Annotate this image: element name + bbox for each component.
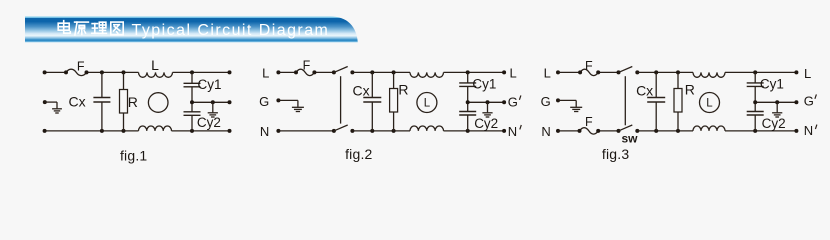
- fig3 rail junction dots: [654, 70, 798, 132]
- svg-text:F: F: [303, 59, 311, 73]
- inductor top winding fig3: [693, 72, 725, 77]
- label G terminal fig3: [541, 94, 551, 109]
- label R fig3: [685, 82, 695, 98]
- inductor top winding fig2: [410, 72, 444, 77]
- svg-text:Cy1: Cy1: [198, 77, 222, 92]
- choke core circle fig1: [148, 93, 168, 113]
- inductor bottom winding fig2: [410, 126, 444, 131]
- label Cx fig2: [352, 82, 369, 98]
- capacitor Cy1 fig3: [747, 72, 764, 102]
- label L terminal fig2: [262, 66, 269, 81]
- svg-text:Cx: Cx: [352, 82, 369, 98]
- svg-text:Cy2: Cy2: [197, 115, 221, 130]
- label Cy1 fig2: [472, 77, 496, 92]
- fig2 top rail wire segments: [352, 71, 504, 73]
- label R fig1: [128, 94, 138, 110]
- svg-text:Cy1: Cy1: [760, 77, 784, 92]
- label F fig2: [303, 59, 311, 73]
- inductor fig1 bottom winding: [139, 126, 172, 131]
- svg-text:L: L: [424, 98, 431, 110]
- svg-text:L: L: [804, 66, 811, 81]
- svg-text:L: L: [706, 98, 713, 110]
- svg-text:Cy2: Cy2: [474, 116, 498, 131]
- capacitor Cx fig1: [93, 72, 110, 130]
- capacitor Cy2 fig1: [184, 102, 201, 131]
- fig1 top rail node dots: [43, 70, 232, 74]
- svg-text:fig.3: fig.3: [602, 146, 629, 162]
- capacitor Cy2 fig2: [459, 102, 476, 131]
- label Cx fig3: [636, 82, 653, 98]
- label N terminal fig2: [260, 124, 269, 139]
- capacitor Cx fig2: [363, 72, 381, 130]
- svg-text:R: R: [128, 94, 138, 110]
- svg-text:R: R: [398, 82, 408, 98]
- ground fig1 mid: [208, 102, 218, 117]
- fig1 left mid terminal wire: [43, 100, 57, 108]
- svg-text:R: R: [685, 82, 695, 98]
- switch top fig2: [332, 67, 355, 75]
- label Cy2 fig1: [197, 115, 221, 130]
- fig1 bottom rail wire: [45, 130, 230, 132]
- fig3 G terminal wire: [556, 98, 576, 107]
- switch bottom fig2: [332, 125, 355, 133]
- fuse F fig3 bottom: [578, 128, 601, 134]
- fig3 bottom rail wire segments: [637, 130, 796, 132]
- label fig.2: [345, 146, 372, 162]
- svg-text:fig.1: fig.1: [120, 148, 147, 164]
- switch top fig3: [617, 67, 640, 75]
- ground fig1 left: [52, 109, 62, 113]
- svg-text:N: N: [804, 123, 813, 138]
- capacitor Cy2 fig3: [747, 102, 764, 131]
- svg-text:Cy2: Cy2: [762, 116, 786, 131]
- fig1 bottom rail node dots: [43, 129, 232, 133]
- ground fig3 G: [570, 107, 582, 111]
- label Cy1 fig3: [760, 77, 784, 92]
- svg-text:Cy1: Cy1: [472, 77, 496, 92]
- label F fig3 bottom: [585, 115, 593, 129]
- label fig.1: [120, 148, 147, 164]
- svg-text:N: N: [508, 124, 517, 139]
- resistor R fig1: [120, 72, 128, 130]
- ground fig2 G: [292, 107, 304, 111]
- svg-text:L: L: [151, 57, 159, 73]
- inductor L fig1 top winding: [139, 72, 173, 77]
- svg-text:L: L: [510, 66, 517, 81]
- fig2 L rail left wires: [276, 70, 334, 74]
- label sw fig3: [621, 132, 638, 146]
- fuse F fig1: [66, 69, 87, 75]
- choke circle with L fig2: [417, 93, 437, 113]
- fig3 top rail wire segments: [637, 71, 796, 73]
- capacitor Cy1 fig2: [459, 72, 476, 102]
- label Cx fig1: [69, 94, 86, 110]
- choke circle with L fig3: [700, 93, 720, 113]
- capacitor Cx fig3: [647, 72, 665, 130]
- svg-text:G: G: [508, 95, 518, 110]
- fig3 L rail left wires: [556, 70, 619, 74]
- label N terminal fig3: [541, 124, 550, 139]
- banner English title: [132, 22, 330, 39]
- fig1 top rail wire: [45, 71, 230, 73]
- label N-prime terminal fig2: [508, 124, 522, 139]
- banner Chinese title 电原理图: [58, 21, 123, 35]
- svg-text:Cx: Cx: [69, 94, 86, 110]
- switch linkage fig3: [624, 76, 626, 125]
- title banner background: [25, 16, 358, 42]
- inductor bottom winding fig3: [693, 126, 725, 131]
- label G-prime terminal fig3: [804, 93, 817, 108]
- svg-text:G: G: [804, 93, 814, 108]
- fig2 G terminal wire: [276, 98, 298, 107]
- resistor R fig2: [390, 72, 398, 130]
- svg-text:F: F: [585, 59, 593, 73]
- svg-text:sw: sw: [621, 132, 638, 146]
- label L right terminal fig2: [510, 66, 517, 81]
- fig1 mid wire to terminal: [190, 100, 232, 104]
- label Cy2 fig2: [474, 116, 498, 131]
- svg-text:F: F: [585, 115, 593, 129]
- svg-text:F: F: [77, 60, 85, 74]
- resistor R fig3: [674, 72, 682, 130]
- svg-text:G: G: [259, 94, 269, 109]
- svg-text:N: N: [260, 124, 269, 139]
- capacitor Cy1 fig1: [184, 72, 201, 102]
- label N-prime terminal fig3: [804, 123, 817, 138]
- switch linkage fig2: [340, 76, 342, 123]
- svg-text:L: L: [544, 66, 551, 81]
- ground fig2 mid: [482, 102, 492, 117]
- fig3 mid wire to G-prime terminal: [753, 100, 798, 104]
- label L fig1: [151, 57, 159, 73]
- label G-prime terminal fig2: [508, 95, 521, 110]
- fig2 N rail left wires: [276, 129, 334, 133]
- label L right terminal fig3: [804, 66, 811, 81]
- ground fig3 mid: [772, 102, 782, 117]
- svg-text:Cx: Cx: [636, 82, 653, 98]
- fuse F fig2: [294, 69, 316, 75]
- svg-text:Typical Circuit Diagram: Typical Circuit Diagram: [132, 22, 330, 39]
- switch bottom fig3 sw: [617, 125, 640, 133]
- svg-text:fig.2: fig.2: [345, 146, 372, 162]
- fig2 bottom rail wire segments: [352, 130, 504, 132]
- label F fig1: [77, 60, 85, 74]
- fig2 rail junction dots: [370, 70, 506, 132]
- label Cy1 fig1: [198, 77, 222, 92]
- fig2 mid wire to G-prime terminal: [466, 100, 506, 104]
- label R fig2: [398, 82, 408, 98]
- label fig.3: [602, 146, 629, 162]
- label G terminal fig2: [259, 94, 269, 109]
- label Cy2 fig3: [762, 116, 786, 131]
- label L terminal fig3: [544, 66, 551, 81]
- fig3 N rail left wires: [556, 129, 619, 133]
- fuse F fig3 top: [578, 69, 600, 75]
- label F fig3 top: [585, 59, 593, 73]
- svg-text:N: N: [541, 124, 550, 139]
- svg-text:G: G: [541, 94, 551, 109]
- svg-text:L: L: [262, 66, 269, 81]
